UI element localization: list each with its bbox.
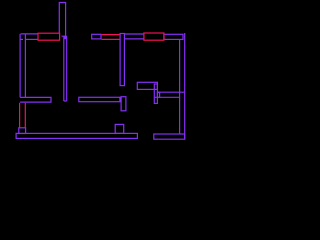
wall W3 band <box>20 97 51 102</box>
wall W4 band <box>79 97 120 101</box>
window R3 red rect <box>144 33 164 40</box>
wall V2 vertical stub <box>64 39 67 101</box>
wall W2 left vertical <box>20 34 25 98</box>
wall band left bottom line <box>25 38 38 40</box>
tiny box T <box>157 92 159 97</box>
wall F2 line <box>154 96 179 98</box>
wall E rect <box>164 34 183 39</box>
wall W1 top rect <box>59 3 65 37</box>
wall V2 filled top <box>63 36 67 39</box>
wall band D bottom line <box>124 38 143 40</box>
wall band D top line <box>124 33 143 35</box>
small square M <box>19 128 26 134</box>
window R2 red lines <box>102 35 121 40</box>
wall F1 line <box>157 91 184 93</box>
wall V3 vertical rect <box>120 34 124 86</box>
floor plan drawing <box>0 0 200 151</box>
small box O <box>115 124 124 133</box>
bottom right bar P <box>154 134 185 139</box>
window R4 red lines <box>20 103 26 128</box>
wall H rect <box>154 84 157 103</box>
wall P2 rect <box>92 34 101 39</box>
wall tick <box>20 38 23 40</box>
bottom bar N <box>16 133 137 138</box>
door leaf L rect <box>121 97 126 111</box>
window R1 red rect <box>38 33 60 40</box>
wall G rect <box>137 82 157 89</box>
wall V4 right vertical <box>180 33 185 139</box>
wall band left top line <box>21 33 38 35</box>
